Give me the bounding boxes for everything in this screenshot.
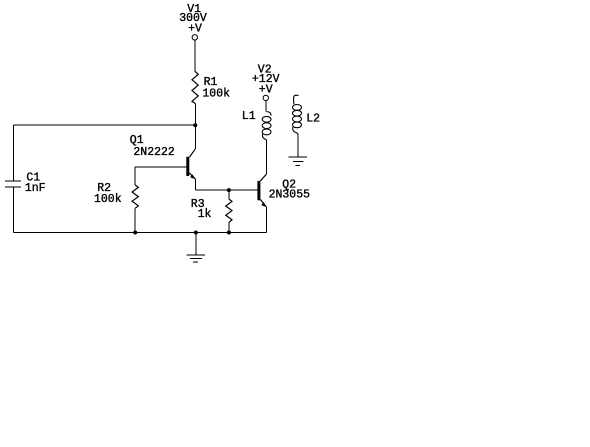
svg-text:L2: L2 xyxy=(306,112,320,125)
svg-text:2N3055: 2N3055 xyxy=(269,188,311,201)
svg-text:1k: 1k xyxy=(198,208,212,221)
svg-text:+V: +V xyxy=(188,23,202,36)
svg-text:2N2222: 2N2222 xyxy=(133,146,175,159)
svg-text:L1: L1 xyxy=(242,110,256,123)
svg-text:100k: 100k xyxy=(202,87,230,100)
svg-text:1nF: 1nF xyxy=(25,182,46,195)
svg-text:100k: 100k xyxy=(94,193,122,206)
svg-text:+V: +V xyxy=(259,83,273,96)
